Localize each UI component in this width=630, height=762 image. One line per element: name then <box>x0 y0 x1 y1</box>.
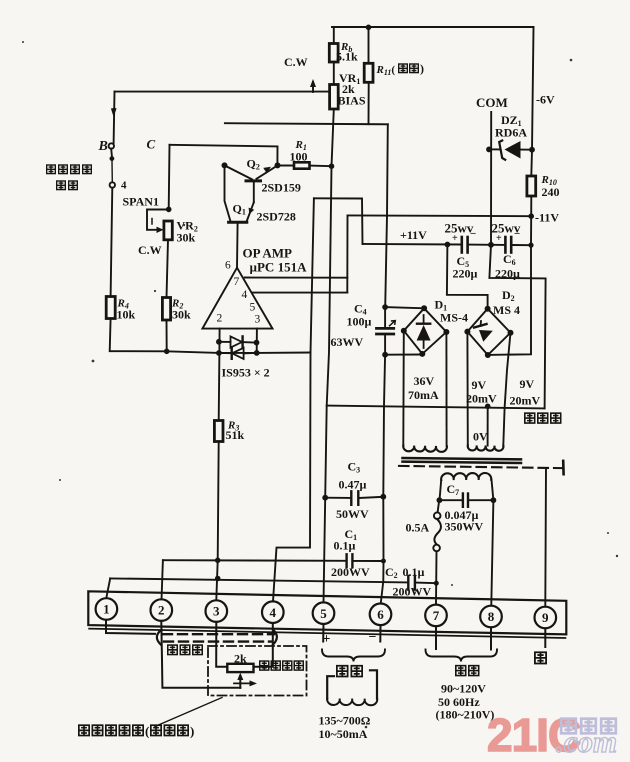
svg-text:3: 3 <box>213 604 220 619</box>
label position-select switch <box>47 62 561 739</box>
wire ground column to terminal 9 <box>544 468 547 606</box>
switch contact 4 open circle <box>110 182 115 187</box>
wire x388 down to -11V <box>386 124 389 216</box>
svg-text:2: 2 <box>217 313 223 325</box>
transformer 36V secondary winding <box>403 446 447 452</box>
wire contact4 down to R4 <box>111 188 113 297</box>
wire VR1 wiper line from B <box>115 91 330 93</box>
svg-text:20mV: 20mV <box>510 394 541 408</box>
bridge D2 MS-4 diamond <box>467 309 510 355</box>
wire top rail <box>332 26 534 28</box>
wire 9V winding right lead <box>503 408 504 446</box>
diode pair IS953x2 bottom line <box>219 352 257 355</box>
svg-text:0.5A: 0.5A <box>406 521 430 535</box>
svg-text:5: 5 <box>320 606 327 621</box>
resistor Rb 5.1k <box>329 44 338 63</box>
svg-text:1: 1 <box>103 602 110 617</box>
svg-text:B: B <box>98 139 108 154</box>
resistor R2 30k <box>162 298 170 321</box>
svg-text:(180~210V): (180~210V) <box>436 708 495 722</box>
svg-text:C.W: C.W <box>284 55 308 69</box>
svg-text:C: C <box>147 137 156 152</box>
diode pair IS953x2 top line <box>219 341 257 344</box>
wire +11V corner jog <box>314 198 363 244</box>
svg-text:36V: 36V <box>414 374 435 388</box>
wire terminal3 down to pot left <box>216 622 227 667</box>
svg-text:6: 6 <box>377 607 384 622</box>
svg-text:MS 4: MS 4 <box>493 303 520 317</box>
svg-text:(: ( <box>145 724 149 739</box>
wire -11V left drop <box>346 215 348 292</box>
wiper arrow of 2k pot <box>239 676 241 688</box>
wire D1 right lead to winding <box>445 332 447 446</box>
wire -11V rail <box>348 214 532 217</box>
wire R3 to terminal 3 <box>216 442 218 601</box>
wire 0V center tap <box>487 406 489 445</box>
wire D2 right lead <box>505 333 511 408</box>
svg-text:): ) <box>190 724 194 739</box>
terminal strip outline <box>88 591 566 638</box>
svg-text:50WV: 50WV <box>336 507 369 521</box>
node B open circle <box>109 143 114 148</box>
op-amp pin numbers <box>217 260 261 326</box>
svg-text:IS953 × 2: IS953 × 2 <box>222 366 270 380</box>
watermark 21IC.com <box>487 709 617 761</box>
brace output terminals 5-6 <box>322 650 385 662</box>
fuse 0.5A <box>438 500 440 512</box>
label transformer <box>525 413 535 423</box>
wire terminal2 feed <box>161 560 163 603</box>
svg-text:100µ: 100µ <box>347 315 372 329</box>
wire terminal5 stub <box>322 624 324 642</box>
svg-text:5: 5 <box>250 302 256 314</box>
svg-text:): ) <box>420 62 424 76</box>
wire Rb top stub <box>333 27 335 43</box>
wire COM column <box>489 112 545 408</box>
svg-text:4: 4 <box>270 605 277 620</box>
junction dot under B <box>110 156 115 161</box>
wire D2 left lead to winding <box>466 332 468 446</box>
capacitor C2 0.1u plates <box>407 576 409 590</box>
svg-text:0.47µ: 0.47µ <box>339 478 367 492</box>
resistor R3 51k <box>214 421 223 442</box>
wire D1 left lead to winding <box>402 331 405 446</box>
wire R11 top stub <box>368 27 370 63</box>
wire diode pair left column and R3 <box>218 329 221 421</box>
direction arrow output-increase <box>234 682 253 684</box>
svg-text:−: − <box>470 228 476 240</box>
svg-text:−: − <box>369 630 377 645</box>
wire pin7 to -11V branch <box>245 277 347 279</box>
label short-circuit in R11 <box>399 64 408 73</box>
svg-text:µPC 151A: µPC 151A <box>250 260 308 275</box>
svg-text:240: 240 <box>542 185 560 199</box>
transistor Q2 2SD159 <box>225 165 253 179</box>
op-amp U1 uPC151A triangle <box>202 268 272 329</box>
arrow on B line <box>111 108 117 117</box>
svg-text:-11V: -11V <box>535 211 559 225</box>
svg-text:90~120V: 90~120V <box>441 682 486 696</box>
wire terminal9 ground stub <box>544 628 546 647</box>
svg-text:2SD728: 2SD728 <box>257 210 296 224</box>
bridge D1 MS-4 diamond <box>404 308 447 354</box>
svg-text:+: + <box>496 233 502 244</box>
svg-text:8: 8 <box>488 609 495 624</box>
wire fuse to terminal 7 <box>435 551 438 603</box>
svg-text:COM: COM <box>476 95 508 110</box>
svg-text:200WV: 200WV <box>393 585 432 599</box>
wire terminal4 down to pot right <box>254 623 273 667</box>
svg-text:220µ: 220µ <box>453 267 478 281</box>
svg-text:20mV: 20mV <box>466 392 497 406</box>
capacitor C7 0.047u line <box>440 499 494 501</box>
wire VR2 to R2 <box>167 240 169 298</box>
svg-text:-6V: -6V <box>536 93 555 107</box>
svg-text:70mA: 70mA <box>408 388 439 402</box>
svg-text:5.1k: 5.1k <box>336 50 358 64</box>
wire terminal4 feed column with step <box>273 198 314 603</box>
svg-text:100: 100 <box>290 150 308 164</box>
resistor R10 240 <box>527 176 536 196</box>
svg-text:30k: 30k <box>177 231 196 245</box>
svg-text:4: 4 <box>242 289 248 301</box>
terminal circles 1-9 <box>96 598 556 628</box>
arrow C.W direction <box>312 82 314 92</box>
svg-text:BIAS: BIAS <box>338 94 366 108</box>
wire bias row y123 <box>225 123 388 124</box>
capacitor C6 220u plates <box>504 237 507 253</box>
svg-text:0.1µ: 0.1µ <box>334 539 356 553</box>
svg-text:7: 7 <box>234 276 240 288</box>
wire terminal2 down to wiper <box>161 621 240 688</box>
wire diode pair right column <box>256 329 258 353</box>
wire C1 row y560 <box>163 559 384 562</box>
svg-text:SPAN1: SPAN1 <box>123 195 159 209</box>
capacitor C3 0.47u line <box>325 497 383 498</box>
capacitor C4 100u 63WV <box>384 307 386 328</box>
output load symbol <box>327 676 334 698</box>
transistor Q1 2SD728 <box>225 165 231 221</box>
svg-text:10~50mA: 10~50mA <box>319 727 368 741</box>
svg-text:2k: 2k <box>234 652 247 666</box>
wire D1 top from C4 <box>385 307 424 308</box>
svg-text:30k: 30k <box>172 308 191 322</box>
wire B to contact 4 <box>110 149 113 157</box>
svg-text:3: 3 <box>255 314 261 326</box>
label output increase <box>260 661 269 670</box>
svg-text:350WV: 350WV <box>445 520 484 534</box>
svg-text:OP AMP: OP AMP <box>243 246 293 261</box>
wire R11 bottom <box>368 82 370 124</box>
svg-text:+11V: +11V <box>400 228 427 242</box>
svg-text:0V: 0V <box>473 430 488 444</box>
transformer core lines <box>403 458 522 459</box>
svg-text:200WV: 200WV <box>331 565 370 579</box>
wire R4 bottom rail to diode line <box>110 319 311 353</box>
label power <box>456 666 466 676</box>
wire +11V rail segments with C5 C6 <box>363 244 532 245</box>
potentiometer VR2 30k wiper loop SPAN <box>147 210 169 230</box>
svg-text:9V: 9V <box>472 378 487 392</box>
svg-text:+: + <box>323 632 331 647</box>
svg-text:RD6A: RD6A <box>495 126 527 140</box>
resistor R11 short-circuit <box>364 63 373 82</box>
label shield wire <box>168 645 177 654</box>
svg-text:9V: 9V <box>520 377 535 391</box>
wire R10 bottom through -11V and caps to D2 bottom <box>488 196 532 355</box>
svg-text:10k: 10k <box>117 308 136 322</box>
wire node C corner and down to VR2 <box>170 145 278 165</box>
svg-text:51k: 51k <box>226 428 245 442</box>
transformer primary winding <box>441 473 491 480</box>
shield dashed line with ground bar <box>399 466 562 468</box>
svg-text:MS-4: MS-4 <box>440 311 468 325</box>
svg-text:135~700Ω: 135~700Ω <box>319 714 371 728</box>
svg-text:−: − <box>514 228 520 240</box>
wire terminal1 feed <box>106 578 110 597</box>
diode inside D1 <box>423 315 425 348</box>
shield cable dashed ellipse <box>157 631 161 645</box>
label output <box>337 666 348 677</box>
resistor R1 100 <box>277 165 294 167</box>
wire Rb to VR1 <box>333 62 335 84</box>
svg-text:220µ: 220µ <box>495 267 520 281</box>
potentiometer 2k body <box>227 664 253 672</box>
svg-text:4: 4 <box>121 180 127 192</box>
label displacement sensor potentiometer <box>79 725 89 735</box>
wire C4 bottom to D1 bottom <box>385 354 422 356</box>
wire primary right to terminal 8 <box>491 500 493 605</box>
wire terminal6 stub <box>379 625 381 641</box>
svg-text:9: 9 <box>542 610 549 625</box>
label earth ground <box>535 652 546 663</box>
zener DZ1 RD6A <box>489 148 500 150</box>
svg-text:2: 2 <box>158 603 165 618</box>
wire terminal8 to power brace <box>490 627 492 649</box>
leader line to sensor label <box>155 698 222 727</box>
svg-text:6: 6 <box>225 260 231 272</box>
potentiometer VR1 2k BIAS <box>330 85 339 110</box>
wire C2 row y578 <box>110 578 436 583</box>
transformer 9V secondary winding <box>468 446 504 451</box>
wire pin4 <box>252 292 347 294</box>
wire VR1 bottom long column to terminal 5 <box>324 109 334 603</box>
svg-text:0.1µ: 0.1µ <box>403 565 425 579</box>
wire terminal1 shield drop <box>106 620 155 634</box>
wire B corner down <box>113 92 116 144</box>
svg-text:2SD159: 2SD159 <box>262 181 301 195</box>
svg-text:C.W: C.W <box>138 243 162 257</box>
terminal digits <box>103 602 549 626</box>
text labels latin <box>98 41 560 741</box>
brace power terminals 7-8 <box>426 650 498 662</box>
svg-text:7: 7 <box>433 608 440 623</box>
svg-text:+: + <box>452 233 458 244</box>
capacitor C1 0.1u plates <box>345 554 347 567</box>
wire R2 bottom <box>166 320 168 351</box>
potentiometer VR2 30k body <box>164 221 172 240</box>
wire C5+ to D2 top feed <box>447 245 488 309</box>
wire main center column x386 <box>385 216 387 307</box>
resistor R4 10k <box>106 297 115 319</box>
sensor box dash-dot <box>208 646 307 696</box>
wire 0V rail <box>327 406 545 409</box>
diode inside D2 <box>474 324 487 328</box>
svg-text:63WV: 63WV <box>331 335 364 349</box>
capacitor C5 220u plates <box>460 237 463 253</box>
wire terminal7 to power brace <box>435 626 437 649</box>
wire -6V rail right side <box>531 28 533 177</box>
wire Q1 emitter to op-amp pin6 <box>236 222 239 267</box>
